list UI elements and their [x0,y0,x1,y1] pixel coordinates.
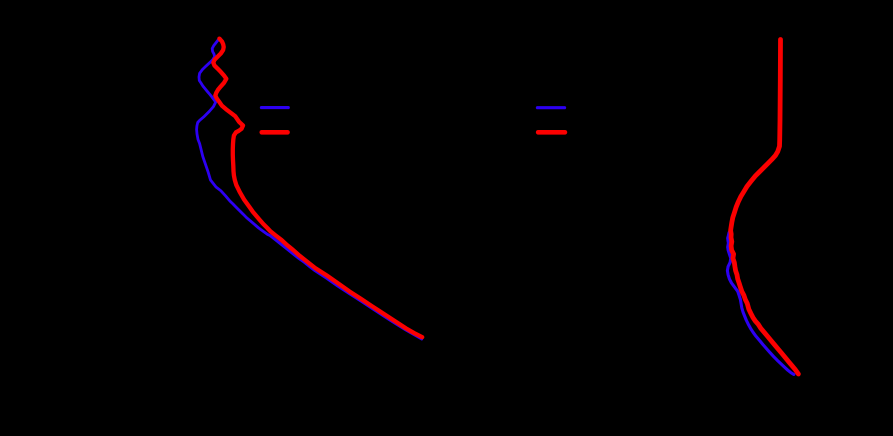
left legend red swatch [262,130,288,135]
right legend red swatch [538,130,565,135]
right panel red curve [731,40,799,375]
right legend blue swatch [537,106,564,109]
left panel blue curve [197,40,422,340]
left legend blue swatch [261,106,288,109]
left panel red curve [213,39,422,338]
right panel blue curve [727,233,793,375]
